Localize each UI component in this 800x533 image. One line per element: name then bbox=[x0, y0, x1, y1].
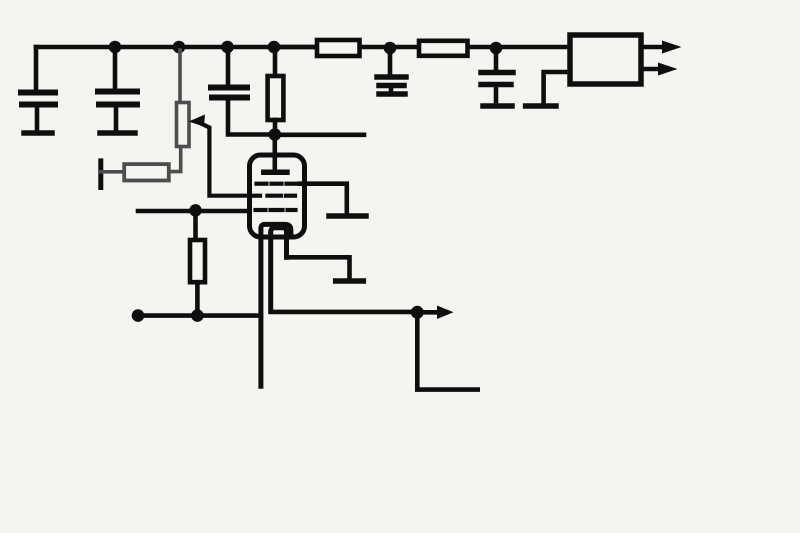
resistor 50к bbox=[98, 161, 103, 188]
capacitor 47,0 electrolytic bbox=[494, 52, 499, 70]
tube Л1 6Ж5П envelope bbox=[250, 155, 305, 237]
node grid/560к bbox=[189, 204, 202, 217]
tube heater bbox=[271, 228, 287, 312]
arrow 6В bbox=[421, 310, 438, 315]
node 560к/coil top bbox=[191, 309, 204, 322]
resistor 3,3к (first) bbox=[280, 45, 317, 50]
node 6В bbox=[411, 306, 424, 319]
resistor 47к bbox=[273, 51, 278, 76]
ground (C 47,0) bbox=[483, 103, 512, 109]
capacitor 10н bbox=[226, 51, 231, 85]
node rail/47к bbox=[268, 41, 281, 54]
capacitor 470,0 (left electrolytic) bbox=[21, 93, 55, 105]
node 36пФ chain bbox=[132, 309, 145, 322]
wire tank node to cathode bbox=[138, 313, 261, 318]
ground (C 0,1) bbox=[100, 130, 135, 136]
node rail/470,0 bbox=[384, 42, 397, 55]
wire pin 1 from node bbox=[138, 209, 249, 214]
node rail/47,0 bbox=[490, 42, 503, 55]
node anode junction bbox=[269, 128, 282, 141]
tube grid row 2 (pin 6) bbox=[252, 194, 295, 198]
node rail/220k bbox=[173, 41, 186, 54]
ground (transformer minus) bbox=[526, 103, 556, 109]
rectifier block (transformer box) bbox=[570, 35, 641, 84]
wire pin 3 to ground bbox=[287, 257, 350, 278]
wiper arrow 220к bbox=[199, 123, 250, 196]
wire junction to coupling cap bbox=[275, 133, 364, 138]
tube grid row 1 (pin 2) bbox=[257, 182, 297, 186]
node rail/10н bbox=[221, 41, 234, 54]
wire output arrows к сет. трансф. bbox=[641, 45, 664, 50]
tube grid row 3 (pin 1) bbox=[256, 208, 296, 212]
ground (C 470,0 mid) bbox=[379, 91, 405, 97]
ground (C 470,0 left) bbox=[24, 130, 52, 136]
wire left drop to C 470,0 bbox=[34, 47, 39, 91]
resistor 3,3к (second) bbox=[419, 41, 468, 56]
wire 6В node down to power box bbox=[417, 316, 477, 390]
capacitor 470,0 (second) bbox=[388, 52, 393, 74]
capacitor 0,1 bbox=[113, 51, 118, 89]
ground (pin 2) bbox=[329, 213, 366, 219]
wire pin 2 to ground bbox=[300, 184, 347, 213]
ground (pin 3) bbox=[336, 278, 364, 284]
node rail/0,1 bbox=[109, 41, 122, 54]
tube cathode bbox=[261, 224, 291, 386]
wire pin 4 heater to 6В node bbox=[271, 310, 414, 315]
resistor 560к grid leak bbox=[193, 214, 198, 240]
potentiometer 220к bbox=[169, 50, 189, 172]
tube anode bbox=[272, 138, 277, 170]
wire top supply rail bbox=[36, 45, 570, 50]
wire transformer minus return bbox=[544, 72, 570, 103]
